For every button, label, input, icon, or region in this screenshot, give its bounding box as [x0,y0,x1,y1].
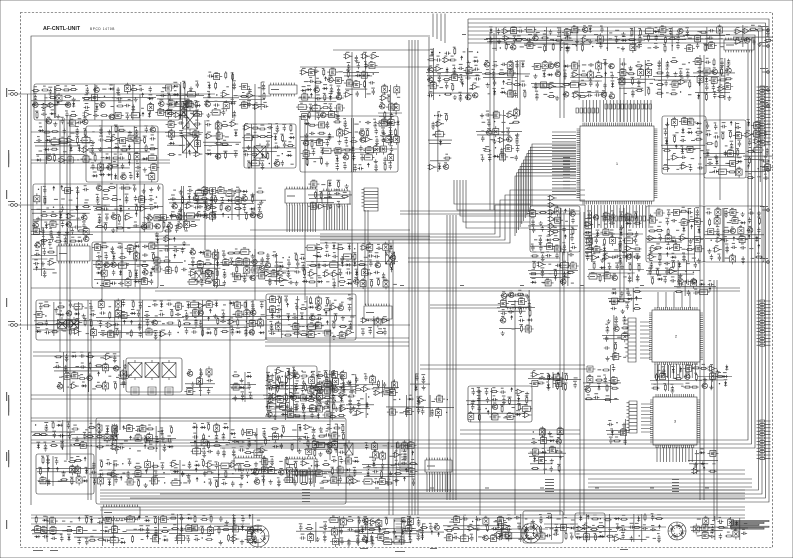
power flag [730,123,732,125]
relay X9 [183,109,198,132]
wire [34,118,92,164]
filter FL321 [316,122,327,128]
resistor R162 [364,80,366,88]
resistor R749 [670,93,678,95]
label [338,129,342,130]
resistor R598 [444,93,452,95]
junction [77,159,78,160]
label [469,51,473,52]
junction [184,260,185,261]
label [309,77,312,78]
resistor R429 [102,198,110,200]
label [486,69,489,70]
power flag [174,256,176,258]
capacitor C812 [515,155,518,161]
label [149,204,153,205]
label [105,261,109,262]
label column [585,218,592,256]
label [748,39,752,40]
label [390,145,393,146]
ground [480,113,484,118]
wire boundary [31,36,430,505]
filter FL768 [693,59,704,65]
label [173,202,177,203]
label [538,47,542,48]
resistor R502 [141,265,149,267]
diode D440 [188,195,191,201]
resistor R580 [338,180,340,188]
label [691,158,695,159]
transistor Q151 [314,87,319,92]
label [389,118,392,119]
junction [553,40,554,41]
diode D629 [500,91,506,94]
transistor Q475 [205,205,210,210]
capacitor C364 [336,165,339,171]
filter FL58 [113,112,124,118]
wire [193,188,266,220]
node E2 [703,121,745,178]
label [250,195,254,196]
capacitor C70 [116,87,120,95]
label [96,194,99,195]
junction [282,153,283,154]
node D1 [426,47,482,102]
label [151,144,154,145]
label [128,153,131,154]
capacitor C727 [653,46,659,49]
label [46,208,49,209]
capacitor C758 [708,29,714,32]
resistor R666 [563,83,571,85]
diode D88 [195,104,201,107]
label [354,124,358,125]
label [610,92,613,93]
resistor R325 [311,140,313,148]
resistor R579 [315,191,317,199]
label [143,277,147,278]
resistor R788 [756,29,764,31]
filter FL608 [464,67,475,73]
power flag [135,214,137,216]
ground [111,228,115,233]
ground [178,114,182,119]
resistor R715 [635,65,643,67]
diode D785 [705,77,708,83]
capacitor C108 [232,82,236,90]
ground [179,207,183,212]
ic IC314 [249,161,261,166]
label [48,239,51,240]
label [314,104,317,105]
resistor R531 [163,260,171,262]
capacitor C582 [337,202,340,208]
ground [98,147,102,152]
label [705,84,708,85]
capacitor C424 [96,196,100,204]
label [187,133,190,134]
diode D140 [306,88,312,91]
label [159,99,163,100]
filter FL50 [148,102,154,113]
label [493,79,496,80]
label [563,70,566,71]
diode D130 [329,94,332,100]
label [174,90,177,91]
filter FL640 [505,91,516,97]
capacitor C189 [77,121,83,124]
label [485,60,488,61]
label [543,34,546,35]
resistor R178 [394,128,396,136]
wire fan [287,205,316,232]
diode D126 [301,89,307,92]
label [488,154,492,155]
label [190,113,194,114]
capacitor C338 [365,121,371,124]
capacitor C671 [534,82,538,90]
label [514,90,517,91]
capacitor C374 [354,166,357,172]
label [736,37,739,38]
resistor R831 [695,131,703,133]
label [337,93,341,94]
node A3 [155,81,204,119]
label [631,88,634,89]
capacitor C599 [458,67,464,70]
capacitor C809 [481,156,484,162]
module outlines [33,84,764,543]
resistor R112 [240,95,248,97]
wire [329,300,331,460]
ground [187,142,191,147]
label [525,76,529,77]
filter FL59 [89,95,100,101]
transistor Q500 [111,262,116,267]
resistor R197 [76,136,78,144]
capacitor C382 [82,223,85,229]
ground [497,39,501,44]
label [321,184,325,185]
label [98,214,101,215]
label [719,38,723,39]
label [216,259,219,260]
label [283,141,287,142]
capacitor C207 [36,139,42,142]
filter FL263 [169,129,175,140]
label [492,69,495,70]
label [63,151,67,152]
filter FL539 [195,261,206,267]
op-amp IC26 [548,209,557,214]
label [484,39,488,40]
label [256,145,260,146]
label [232,80,236,81]
resistor R228 [120,149,128,151]
transistor Q400 [141,224,146,229]
resistor R459 [215,196,217,204]
node B4 [203,120,241,160]
label [685,27,688,28]
label [152,163,156,164]
wire [21,204,111,206]
label [215,269,218,270]
capacitor C318 [326,121,330,129]
relay X13 [128,360,142,380]
transistor Q454 [257,213,262,218]
connector P8 [760,258,770,263]
label [609,38,612,39]
capacitor C264 [180,132,183,138]
wire [130,23,766,498]
capacitor C56 [124,104,130,107]
label [485,488,489,489]
label [666,69,669,70]
label [360,154,364,155]
label [343,192,347,193]
label [60,204,63,205]
resistor R196 [43,131,51,133]
label [698,75,701,76]
label [318,138,321,139]
label [474,57,478,58]
label [388,119,391,120]
label [345,128,349,129]
label [661,25,664,26]
relay X15 [162,360,176,380]
diode D826 [687,131,693,134]
label [206,278,210,279]
node B1 [34,117,92,164]
label [114,125,118,126]
label [204,213,207,214]
label [179,130,183,131]
wire [88,300,91,500]
junction [439,95,440,96]
capacitor C37 [41,113,47,116]
ic IC5 [322,189,350,207]
wire [44,94,46,205]
junction [495,147,496,148]
capacitor C227 [150,137,156,140]
transistor Q446 [172,204,177,209]
label [453,47,456,48]
diode D635 [521,62,524,68]
filter FL619 [508,28,519,34]
label [565,28,568,29]
capacitor C100 [222,110,225,116]
label [111,106,115,107]
label [560,86,563,87]
diode D235 [136,172,139,178]
wire [703,122,745,176]
label [191,257,195,258]
diode D533 [156,238,159,244]
wire [31,442,410,444]
resistor R508 [152,253,154,261]
diode D198 [78,146,81,152]
label [121,253,124,254]
label [574,91,578,92]
ic IC87 [191,111,203,116]
op-amp IC282 [229,121,238,126]
label [445,56,448,57]
label [512,26,516,27]
label [503,115,506,116]
label [277,155,280,156]
label [675,132,678,133]
label [581,80,584,81]
label [135,127,138,128]
label [119,205,122,206]
wire [486,27,526,51]
label [110,183,113,184]
capacitor C794 [752,39,755,45]
wire [420,364,585,366]
diode D341 [351,146,354,152]
label [216,192,219,193]
label [235,249,238,250]
label [691,140,695,141]
wire [203,120,241,160]
filter FL682 [588,70,594,81]
wire [190,31,759,490]
label [114,209,118,210]
wire [33,355,120,357]
label [82,213,86,214]
wire [580,212,584,515]
power flag [36,268,38,270]
filter FL342 [380,144,386,155]
label [680,146,683,147]
wire fan [655,364,695,378]
label [582,71,585,72]
op-amp IC202 [66,138,75,143]
label [380,102,383,103]
label [95,85,98,86]
wire [703,55,705,500]
resistor R795 [483,150,491,152]
node D12 [683,25,725,52]
label [280,285,284,286]
diode D61 [148,112,151,118]
capacitor C572 [261,257,264,263]
wire [408,257,560,259]
label [151,252,154,253]
op-amp IC603 [434,66,443,71]
ground [389,133,393,138]
label [244,258,247,259]
op-amp IC821 [680,164,689,169]
label [117,94,120,95]
label [117,214,120,215]
junction [76,198,77,199]
resistor R362 [384,163,386,171]
label [206,100,209,101]
label [275,159,279,160]
label [207,91,210,92]
resistor R615 [515,39,523,41]
ground [189,87,193,92]
label [237,215,240,216]
label [664,128,668,129]
label [766,36,769,37]
label [167,109,171,110]
transistor Q662 [554,62,559,67]
node D3 [482,60,530,98]
capacitor C201 [75,128,79,136]
filter FL496 [101,268,107,279]
resistor R477 [234,207,242,209]
label [125,84,129,85]
label [519,27,522,28]
label [112,213,115,214]
label [128,244,132,245]
label [53,154,56,155]
capacitor C536 [230,272,236,275]
label [570,31,573,32]
filter FL176 [394,84,400,95]
label [486,111,489,112]
capacitor C447 [170,197,176,200]
transistor Q590 [428,67,433,72]
ground [533,74,537,79]
label [697,128,701,129]
capacitor C601 [475,77,481,80]
transistor Q148 [321,112,326,117]
ground [345,184,349,189]
wire [27,94,29,330]
label [673,80,676,81]
node D11 [653,57,695,98]
label [504,27,507,28]
diode D103 [208,92,211,98]
label [248,91,251,92]
label [654,43,658,44]
label [540,488,544,489]
filter FL136 [333,77,344,83]
label [347,204,351,205]
node C9 [232,247,268,282]
filter FL83 [181,107,187,118]
label [508,69,511,70]
resistor R107 [225,71,227,79]
ic IC307 [242,135,254,140]
label [187,193,190,194]
label [476,75,479,76]
op-amp IC698 [571,72,580,77]
diode D389 [75,205,78,211]
label [445,75,448,76]
resistor R824 [695,138,703,140]
capacitor C465 [258,205,261,211]
filter FL675 [569,27,580,33]
label [84,146,88,147]
relay X20 [205,269,213,284]
label [97,260,100,261]
label [597,72,600,73]
label [70,133,74,134]
label [319,202,322,203]
label [168,100,171,101]
wire [33,351,120,353]
resistor R718 [627,73,635,75]
filter FL796 [493,126,499,137]
label [122,146,126,147]
label [362,71,365,72]
label [375,136,378,137]
transistor Q634 [484,62,489,67]
